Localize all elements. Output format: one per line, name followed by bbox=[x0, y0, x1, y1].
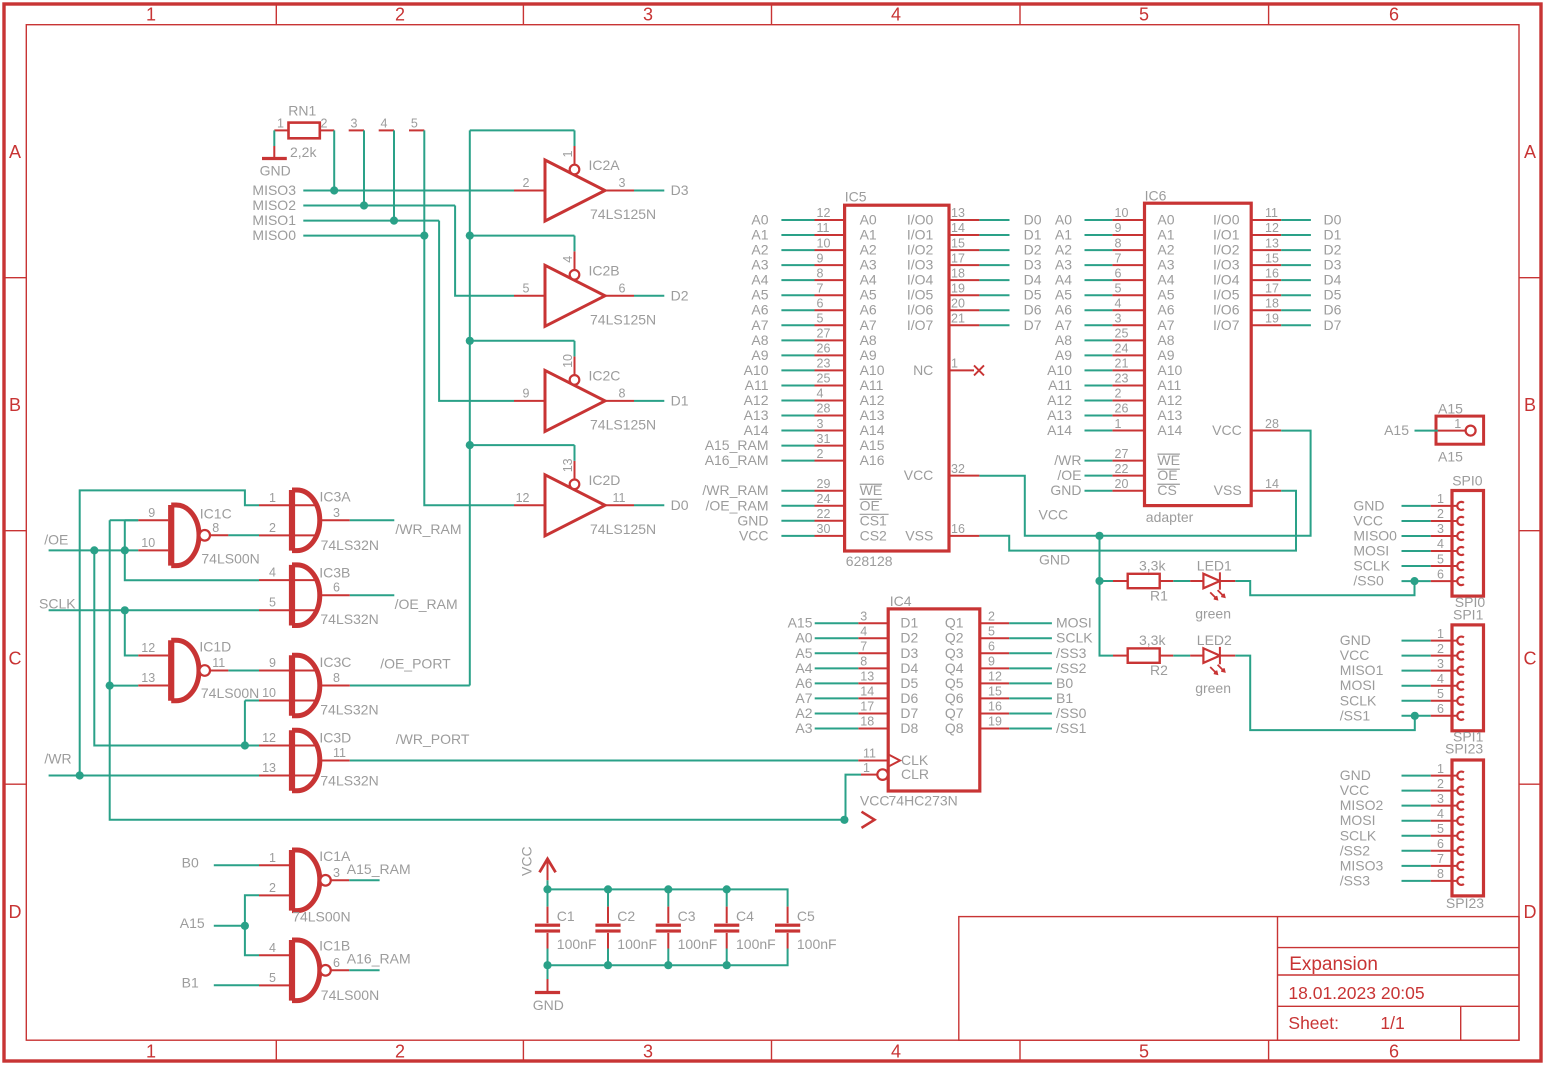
wire MOSI and net label bbox=[1009, 622, 1052, 624]
IC4 pin 18 D8 bbox=[858, 727, 888, 729]
svg-text:5: 5 bbox=[269, 971, 276, 985]
svg-text:32: 32 bbox=[951, 462, 965, 476]
svg-text:Q5: Q5 bbox=[945, 675, 964, 691]
IC6 pin 25 A8 bbox=[1112, 339, 1144, 341]
svg-text:2: 2 bbox=[1437, 507, 1444, 521]
IC5 pin 26 A9 bbox=[815, 354, 845, 356]
IC5 pin 17 I/O3 bbox=[949, 264, 979, 266]
svg-text:IC2B: IC2B bbox=[589, 263, 620, 279]
IC6 pin 3 A7 bbox=[1112, 324, 1144, 326]
svg-text:A14: A14 bbox=[1157, 422, 1182, 438]
wire /WR riser to IC3A.1 bbox=[80, 490, 259, 775]
wire IC1C.10 from /OE bbox=[137, 549, 139, 551]
junction C2 bottom bbox=[604, 961, 612, 969]
wire IC2A output to D3 bbox=[634, 190, 664, 192]
RN1 pin 3 bbox=[349, 129, 364, 131]
wire A6 and net label bbox=[1085, 309, 1113, 311]
svg-text:100nF: 100nF bbox=[678, 936, 718, 952]
svg-text:D6: D6 bbox=[1324, 302, 1342, 318]
IC5 pin 6 A6 bbox=[815, 309, 845, 311]
svg-text:C5: C5 bbox=[797, 908, 815, 924]
svg-text:D5: D5 bbox=[1024, 287, 1042, 303]
svg-text:31: 31 bbox=[817, 432, 831, 446]
junction /SS1 bbox=[1411, 712, 1419, 720]
svg-text:A0: A0 bbox=[860, 212, 877, 228]
svg-text:9: 9 bbox=[523, 386, 530, 400]
svg-text:C: C bbox=[1524, 649, 1537, 669]
svg-text:GND: GND bbox=[533, 997, 564, 1013]
svg-text:6: 6 bbox=[1437, 567, 1444, 581]
wire D2 and net label bbox=[979, 249, 1009, 251]
wire A7 and net label bbox=[815, 697, 859, 699]
svg-text:LED1: LED1 bbox=[1197, 558, 1232, 574]
IC5 pin 24 OE bbox=[815, 505, 845, 507]
resistor R1 3,3k bbox=[1113, 558, 1173, 604]
junction R1 branch bbox=[1095, 577, 1103, 585]
svg-text:5: 5 bbox=[988, 624, 995, 638]
wire /WR bbox=[49, 775, 259, 777]
wire /OE_RAM and net label bbox=[781, 505, 814, 507]
wire D1 and net label bbox=[1281, 234, 1311, 236]
svg-text:/SS0: /SS0 bbox=[1056, 705, 1087, 721]
connector SPI23 bbox=[1452, 760, 1484, 896]
IC4 pin 14 D6 bbox=[858, 697, 888, 699]
svg-text:B: B bbox=[1524, 395, 1536, 415]
IC4 pin 12 Q5 bbox=[980, 682, 1009, 684]
IC5 pin 25 A11 bbox=[815, 384, 845, 386]
svg-text:C3: C3 bbox=[678, 908, 696, 924]
svg-text:28: 28 bbox=[1265, 417, 1279, 431]
svg-text:18: 18 bbox=[1265, 296, 1279, 310]
gate IC3D 74LS32N bbox=[259, 730, 379, 791]
IC4 pin 7 D3 bbox=[858, 652, 888, 654]
A15 pin 1 bbox=[1438, 430, 1465, 432]
svg-text:D4: D4 bbox=[1024, 272, 1042, 288]
svg-text:74HC273N: 74HC273N bbox=[889, 793, 958, 809]
svg-text:SPI23: SPI23 bbox=[1446, 895, 1484, 911]
wire IC2D output to D0 bbox=[634, 504, 664, 506]
svg-text:5: 5 bbox=[1139, 1042, 1149, 1062]
IC6 pin 14 VSS bbox=[1251, 490, 1281, 492]
SPI1 pin 1 bbox=[1431, 640, 1458, 642]
svg-text:3: 3 bbox=[1115, 311, 1122, 325]
wire D7 and net label bbox=[1281, 324, 1311, 326]
wire VCC to top rail bbox=[547, 880, 549, 889]
IC6 pin 8 A2 bbox=[1112, 249, 1144, 251]
svg-text:A8: A8 bbox=[751, 332, 768, 348]
IC6 pin 24 A9 bbox=[1112, 354, 1144, 356]
junction enable IC2D bbox=[466, 441, 474, 449]
IC4 pin 9 Q4 bbox=[980, 667, 1009, 669]
IC5 pin 10 A2 bbox=[815, 249, 845, 251]
svg-text:VSS: VSS bbox=[905, 527, 933, 543]
svg-text:2,2k: 2,2k bbox=[290, 144, 317, 160]
svg-text:D4: D4 bbox=[1324, 272, 1342, 288]
IC6 pin 11 I/O0 bbox=[1251, 219, 1281, 221]
wire SCLK SPI0 bbox=[1402, 565, 1431, 567]
capacitor C4 100nF bbox=[714, 889, 776, 965]
svg-text:A5: A5 bbox=[795, 645, 812, 661]
junction /SS0 bbox=[1410, 577, 1418, 585]
svg-text:6: 6 bbox=[619, 281, 626, 295]
svg-text:A1: A1 bbox=[860, 227, 877, 243]
svg-text:SPI23: SPI23 bbox=[1445, 740, 1483, 756]
junction C3 top bbox=[664, 885, 672, 893]
gate IC1C 74LS00N bbox=[138, 505, 260, 567]
IC5 pin 4 A12 bbox=[815, 399, 845, 401]
svg-text:A7: A7 bbox=[860, 317, 877, 333]
svg-text:13: 13 bbox=[860, 670, 874, 684]
svg-text:11: 11 bbox=[863, 747, 876, 761]
svg-text:8: 8 bbox=[619, 386, 626, 400]
wire VCC SPI0 bbox=[1402, 520, 1431, 522]
capacitor C2 100nF bbox=[595, 889, 657, 965]
wire A6 and net label bbox=[815, 682, 859, 684]
gate IC1B 74LS00N bbox=[259, 938, 379, 1004]
svg-text:D1: D1 bbox=[1324, 227, 1342, 243]
wire D0 and net label bbox=[979, 219, 1009, 221]
svg-text:A13: A13 bbox=[744, 407, 769, 423]
svg-text:Q8: Q8 bbox=[945, 720, 964, 736]
svg-text:A9: A9 bbox=[1055, 347, 1072, 363]
svg-text:4: 4 bbox=[381, 116, 388, 130]
wire A3 and net label bbox=[781, 264, 814, 266]
svg-text:8: 8 bbox=[1437, 867, 1444, 881]
wire B0 and net label bbox=[1009, 682, 1052, 684]
svg-text:I/O1: I/O1 bbox=[1213, 227, 1240, 243]
svg-text:IC3D: IC3D bbox=[319, 730, 351, 746]
capacitor C3 100nF bbox=[656, 889, 718, 965]
svg-text:7: 7 bbox=[817, 281, 824, 295]
svg-text:A10: A10 bbox=[1047, 362, 1072, 378]
svg-text:A7: A7 bbox=[1055, 317, 1072, 333]
svg-text:/WR_RAM: /WR_RAM bbox=[395, 521, 461, 537]
IC5 pin 19 I/O5 bbox=[949, 294, 979, 296]
svg-text:5: 5 bbox=[1437, 822, 1444, 836]
svg-text:MOSI: MOSI bbox=[1353, 543, 1389, 559]
svg-text:MISO3: MISO3 bbox=[252, 182, 296, 198]
svg-text:A2: A2 bbox=[751, 242, 768, 258]
svg-text:2: 2 bbox=[1437, 777, 1444, 791]
wire SCLK and net label bbox=[1009, 637, 1052, 639]
wire A6 and net label bbox=[781, 309, 814, 311]
svg-text:IC1D: IC1D bbox=[199, 639, 231, 655]
svg-text:A13: A13 bbox=[1047, 407, 1072, 423]
svg-text:12: 12 bbox=[988, 670, 1002, 684]
resistor R2 3,3k bbox=[1113, 632, 1173, 678]
svg-text:21: 21 bbox=[1115, 357, 1129, 371]
junction /OE riser bbox=[90, 546, 98, 554]
wire /WR and net label bbox=[1085, 460, 1113, 462]
svg-text:628128: 628128 bbox=[846, 553, 893, 569]
LED LED1 green bbox=[1190, 558, 1235, 622]
wire GND and net label bbox=[781, 520, 814, 522]
svg-text:MOSI: MOSI bbox=[1340, 677, 1376, 693]
wire MISO3 SPI23 bbox=[1402, 865, 1431, 867]
IC4 pin 4 D2 bbox=[858, 637, 888, 639]
junction C2 top bbox=[604, 885, 612, 893]
IC6 pin 2 A12 bbox=[1112, 399, 1144, 401]
wire A8 and net label bbox=[1085, 339, 1113, 341]
wire A5 and net label bbox=[1085, 294, 1113, 296]
wire /OE to IC1C.9 corner bbox=[125, 519, 138, 521]
IC5 pin 20 I/O6 bbox=[949, 309, 979, 311]
connector A15 bbox=[1436, 401, 1484, 465]
wire RN1.2 to MISO3 bbox=[333, 130, 335, 190]
wire A16_RAM and net label bbox=[781, 460, 814, 462]
svg-text:74LS00N: 74LS00N bbox=[201, 551, 259, 567]
wire A15 bbox=[1415, 430, 1439, 432]
svg-text:VCC: VCC bbox=[860, 793, 890, 809]
svg-text:15: 15 bbox=[951, 236, 965, 250]
svg-text:/SS3: /SS3 bbox=[1056, 645, 1087, 661]
wire A2 and net label bbox=[781, 249, 814, 251]
svg-text:A4: A4 bbox=[795, 660, 812, 676]
wire R1 to LED1 bbox=[1173, 580, 1190, 582]
wire IC1C out to IC3A.2 bbox=[228, 534, 259, 536]
svg-text:A14: A14 bbox=[744, 422, 769, 438]
svg-text:green: green bbox=[1195, 680, 1231, 696]
svg-text:MISO2: MISO2 bbox=[1340, 797, 1384, 813]
wire A3 and net label bbox=[815, 727, 859, 729]
svg-text:3: 3 bbox=[817, 417, 824, 431]
IC4 pin 17 D7 bbox=[858, 712, 888, 714]
svg-text:D2: D2 bbox=[900, 630, 918, 646]
IC IC5 628128 bbox=[845, 189, 949, 570]
wire A4 and net label bbox=[815, 667, 859, 669]
svg-text:1: 1 bbox=[1115, 417, 1122, 431]
svg-text:A8: A8 bbox=[1157, 332, 1174, 348]
gate IC1A 74LS00N bbox=[259, 848, 351, 925]
svg-text:Q7: Q7 bbox=[945, 705, 964, 721]
svg-text:5: 5 bbox=[1437, 552, 1444, 566]
wire GND SPI1 bbox=[1402, 640, 1431, 642]
svg-text:5: 5 bbox=[269, 596, 276, 610]
svg-text:CLR: CLR bbox=[901, 766, 929, 782]
svg-text:74LS00N: 74LS00N bbox=[201, 685, 259, 701]
svg-text:/WR_PORT: /WR_PORT bbox=[396, 731, 470, 747]
wire A7 and net label bbox=[781, 324, 814, 326]
resistor network RN1 bbox=[289, 123, 320, 139]
svg-text:/WR: /WR bbox=[44, 751, 71, 767]
svg-text:D: D bbox=[9, 902, 22, 922]
IC5 pin 29 WE bbox=[815, 490, 845, 492]
wire /SS1 SPI1 bbox=[1402, 715, 1431, 717]
svg-text:3,3k: 3,3k bbox=[1139, 558, 1166, 574]
svg-text:/SS3: /SS3 bbox=[1340, 872, 1371, 888]
svg-text:D0: D0 bbox=[671, 497, 689, 513]
IC5 pin 30 CS2 bbox=[815, 535, 845, 537]
IC5 pin 23 A10 bbox=[815, 369, 845, 371]
IC6 pin 19 I/O7 bbox=[1251, 324, 1281, 326]
wire IC4 CLR drop bbox=[846, 775, 862, 820]
svg-text:D5: D5 bbox=[900, 675, 918, 691]
wire A2 and net label bbox=[815, 712, 859, 714]
IC4 pin 15 Q6 bbox=[980, 697, 1009, 699]
svg-text:A12: A12 bbox=[1157, 392, 1182, 408]
svg-text:22: 22 bbox=[817, 507, 831, 521]
wire VCC SPI1 bbox=[1402, 655, 1431, 657]
svg-text:I/O5: I/O5 bbox=[1213, 287, 1240, 303]
svg-text:GND: GND bbox=[260, 163, 291, 179]
svg-text:A5: A5 bbox=[1055, 287, 1072, 303]
svg-text:19: 19 bbox=[1265, 311, 1279, 325]
wire A1 and net label bbox=[1085, 234, 1113, 236]
svg-text:MISO3: MISO3 bbox=[1340, 857, 1384, 873]
wire MOSI SPI1 bbox=[1402, 685, 1431, 687]
svg-text:A0: A0 bbox=[1055, 212, 1072, 228]
svg-text:5: 5 bbox=[1437, 687, 1444, 701]
IC4 pin 5 Q2 bbox=[980, 637, 1009, 639]
wire /OE to IC1C.9 riser bbox=[124, 520, 126, 550]
svg-text:D1: D1 bbox=[900, 615, 918, 631]
wire A10 and net label bbox=[781, 369, 814, 371]
svg-text:A11: A11 bbox=[1157, 377, 1181, 393]
svg-text:7: 7 bbox=[1437, 852, 1444, 866]
svg-text:/OE_RAM: /OE_RAM bbox=[395, 596, 458, 612]
svg-text:A16_RAM: A16_RAM bbox=[705, 452, 769, 468]
junction C1 bottom bbox=[543, 961, 551, 969]
wire enable branch IC2B bbox=[470, 235, 575, 237]
svg-text:3: 3 bbox=[333, 866, 340, 880]
svg-text:GND: GND bbox=[1050, 482, 1081, 498]
svg-text:A12: A12 bbox=[744, 392, 769, 408]
svg-text:25: 25 bbox=[817, 372, 831, 386]
svg-text:IC1C: IC1C bbox=[200, 506, 232, 522]
svg-text:A1: A1 bbox=[751, 227, 768, 243]
wire /WR_RAM and net label bbox=[781, 490, 814, 492]
svg-text:A3: A3 bbox=[751, 257, 768, 273]
svg-text:8: 8 bbox=[860, 655, 867, 669]
wire VCC and net label bbox=[781, 535, 814, 537]
wire A9 and net label bbox=[1085, 354, 1113, 356]
junction MISO0/RN1.5 bbox=[420, 232, 428, 240]
IC5 pin 1 NC bbox=[949, 369, 974, 371]
wire SCLK bbox=[49, 609, 259, 611]
svg-text:I/O0: I/O0 bbox=[1213, 212, 1240, 228]
wire MISO2 bbox=[303, 205, 455, 207]
svg-text:A15: A15 bbox=[1438, 401, 1463, 417]
svg-text:1: 1 bbox=[863, 761, 870, 775]
svg-text:17: 17 bbox=[1265, 281, 1279, 295]
svg-text:4: 4 bbox=[1437, 807, 1444, 821]
IC5 pin 21 I/O7 bbox=[949, 324, 979, 326]
svg-text:27: 27 bbox=[1115, 447, 1129, 461]
svg-text:16: 16 bbox=[951, 522, 965, 536]
svg-text:28: 28 bbox=[817, 402, 831, 416]
wire RN1.5 to MISO0 bbox=[423, 130, 425, 235]
svg-text:A3: A3 bbox=[1055, 257, 1072, 273]
svg-text:adapter: adapter bbox=[1146, 509, 1194, 525]
svg-text:IC3B: IC3B bbox=[319, 565, 350, 581]
svg-text:14: 14 bbox=[860, 685, 874, 699]
wire /OE branch to IC3B.4 bbox=[125, 550, 259, 580]
IC6 pin 22 OE bbox=[1112, 475, 1144, 477]
svg-text:D6: D6 bbox=[1024, 302, 1042, 318]
IC5 pin 28 A13 bbox=[815, 415, 845, 417]
svg-text:I/O0: I/O0 bbox=[907, 212, 934, 228]
IC4 pin 19 Q8 bbox=[980, 727, 1009, 729]
svg-text:VSS: VSS bbox=[1214, 482, 1242, 498]
SPI1 pin 4 bbox=[1431, 685, 1458, 687]
svg-text:13: 13 bbox=[141, 671, 155, 685]
IC5 pin 5 A7 bbox=[815, 324, 845, 326]
svg-text:A15: A15 bbox=[788, 615, 813, 631]
svg-text:6: 6 bbox=[333, 956, 340, 970]
svg-text:29: 29 bbox=[817, 477, 831, 491]
svg-text:A8: A8 bbox=[1055, 332, 1072, 348]
IC6 pin 20 CS bbox=[1112, 490, 1144, 492]
svg-text:4: 4 bbox=[891, 1042, 901, 1062]
svg-text:A3: A3 bbox=[860, 257, 877, 273]
svg-text:14: 14 bbox=[951, 221, 965, 235]
svg-text:13: 13 bbox=[262, 761, 276, 775]
svg-text:MISO0: MISO0 bbox=[1353, 527, 1397, 543]
svg-text:A6: A6 bbox=[860, 302, 877, 318]
svg-text:2: 2 bbox=[269, 521, 276, 535]
SPI23 pin 3 bbox=[1431, 805, 1458, 807]
svg-text:15: 15 bbox=[1265, 251, 1279, 265]
svg-text:A15_RAM: A15_RAM bbox=[705, 437, 769, 453]
svg-text:A6: A6 bbox=[1157, 302, 1174, 318]
svg-text:74LS00N: 74LS00N bbox=[292, 909, 350, 925]
svg-text:C1: C1 bbox=[557, 908, 575, 924]
svg-text:23: 23 bbox=[817, 357, 831, 371]
SPI0 pin 4 bbox=[1431, 550, 1458, 552]
SPI1 pin 6 bbox=[1431, 715, 1458, 717]
wire IC3C.10 drop bbox=[244, 701, 246, 746]
svg-text:I/O3: I/O3 bbox=[1213, 257, 1240, 273]
svg-text:100nF: 100nF bbox=[617, 936, 657, 952]
svg-text:I/O2: I/O2 bbox=[1213, 242, 1240, 258]
gate IC1D 74LS00N bbox=[138, 639, 259, 702]
svg-text:16: 16 bbox=[1265, 266, 1279, 280]
svg-text:6: 6 bbox=[1115, 266, 1122, 280]
wire IC2B output to D2 bbox=[634, 295, 664, 297]
svg-text:1: 1 bbox=[951, 357, 958, 371]
svg-text:12: 12 bbox=[262, 731, 276, 745]
svg-text:74LS125N: 74LS125N bbox=[590, 312, 656, 328]
svg-text:D1: D1 bbox=[1024, 227, 1042, 243]
svg-text:23: 23 bbox=[1115, 372, 1129, 386]
junction /OE to IC3B bbox=[121, 546, 129, 554]
svg-text:74LS32N: 74LS32N bbox=[320, 773, 378, 789]
svg-text:/SS1: /SS1 bbox=[1056, 720, 1087, 736]
wire VCC riser to R1/R2 bbox=[1100, 536, 1114, 656]
wire D7 and net label bbox=[979, 324, 1009, 326]
svg-text:12: 12 bbox=[1265, 221, 1279, 235]
svg-text:VCC: VCC bbox=[519, 846, 535, 876]
wire GND SPI23 bbox=[1402, 775, 1431, 777]
svg-text:B1: B1 bbox=[182, 975, 199, 991]
svg-text:18: 18 bbox=[860, 715, 874, 729]
SPI23 pin 6 bbox=[1431, 850, 1458, 852]
svg-text:A2: A2 bbox=[1157, 242, 1174, 258]
svg-text:SPI0: SPI0 bbox=[1452, 472, 1483, 488]
svg-text:Q4: Q4 bbox=[945, 660, 964, 676]
IC5 pin 27 A8 bbox=[815, 339, 845, 341]
wire MISO0 bbox=[303, 235, 424, 237]
SPI0 pin 1 bbox=[1431, 505, 1458, 507]
junction MISO2/RN1.3 bbox=[360, 201, 368, 209]
svg-text:3: 3 bbox=[333, 506, 340, 520]
svg-text:C2: C2 bbox=[617, 908, 635, 924]
junction C3 bottom bbox=[664, 961, 672, 969]
svg-text:MISO1: MISO1 bbox=[1340, 662, 1384, 678]
RN1 pin 1 bbox=[274, 129, 288, 131]
svg-text:5: 5 bbox=[817, 311, 824, 325]
wire A8 and net label bbox=[781, 339, 814, 341]
